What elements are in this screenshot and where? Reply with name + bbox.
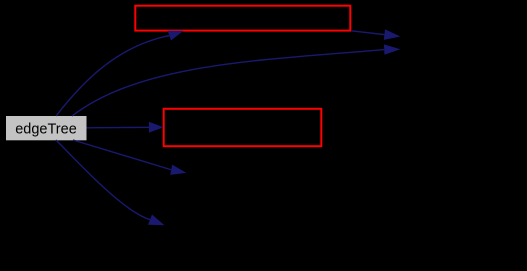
edge A: edgeTree -> top box <box>56 31 184 116</box>
edge C: top box -> right node <box>351 29 400 40</box>
svg-text:edgeTree: edgeTree <box>15 121 77 137</box>
node box middle (red, truncated) <box>164 109 322 146</box>
node edgeTree <box>6 116 87 140</box>
edge E: edgeTree -> lower node 1 <box>73 140 186 175</box>
edge F: edgeTree -> lower node 2 (curved) <box>56 140 165 225</box>
node box top (red, truncated) <box>135 6 350 31</box>
edge D: edgeTree -> middle box <box>87 122 164 133</box>
edge B: edgeTree -> right node (long curve) <box>72 44 400 116</box>
